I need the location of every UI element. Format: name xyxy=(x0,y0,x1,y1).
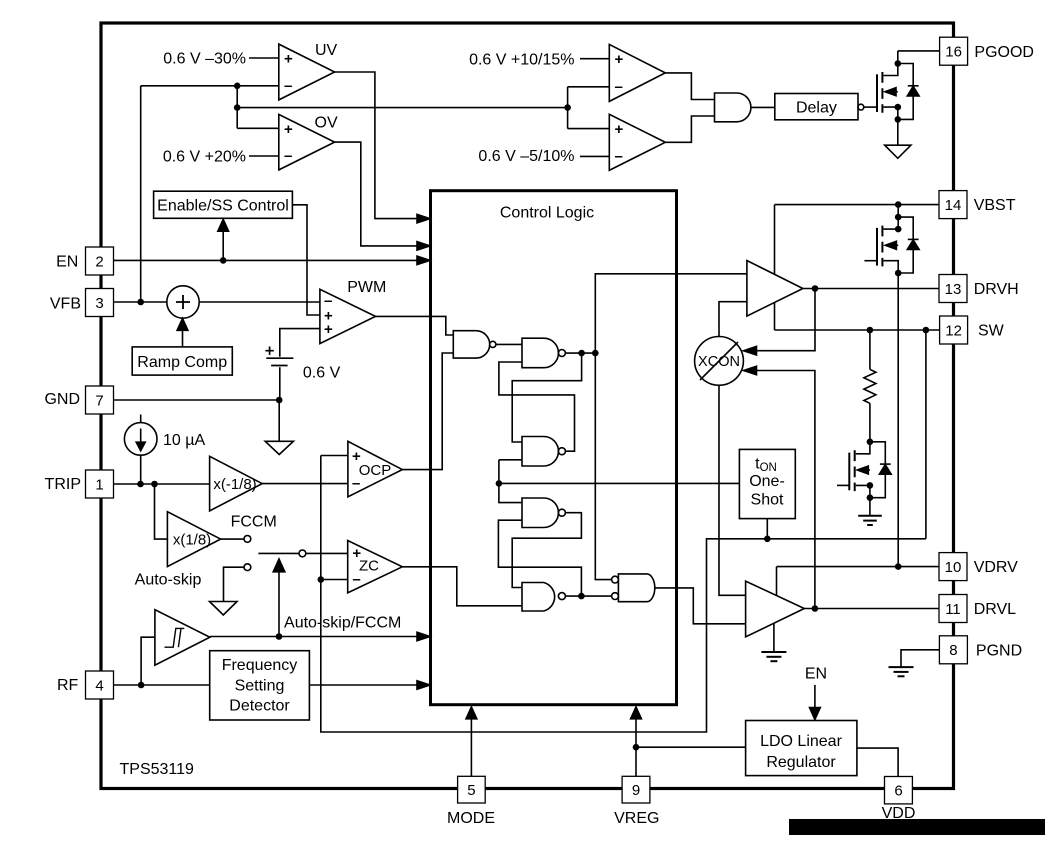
svg-text:Regulator: Regulator xyxy=(766,754,836,771)
svg-text:16: 16 xyxy=(945,44,962,61)
svg-text:5: 5 xyxy=(467,782,475,799)
NAND gate G2 xyxy=(522,338,565,368)
wire VBST line xyxy=(775,204,940,206)
svg-text:RF: RF xyxy=(57,677,79,694)
arrow Ramp Comp to summing xyxy=(182,330,184,347)
wire AND to Delay xyxy=(751,106,775,108)
svg-text:–: – xyxy=(284,148,292,165)
wire PG upper minus xyxy=(568,86,610,88)
arrow into CL EN xyxy=(417,256,430,265)
wire VFB line xyxy=(113,301,166,303)
pin 14 VBST xyxy=(939,191,967,219)
svg-text:FCCM: FCCM xyxy=(231,514,277,531)
driver DRVL xyxy=(746,581,805,637)
wire TRIP to x(1/8) xyxy=(155,484,168,539)
svg-text:1: 1 xyxy=(95,476,103,493)
svg-text:LDO Linear: LDO Linear xyxy=(760,733,842,750)
svg-text:14: 14 xyxy=(945,197,962,214)
wire GND line xyxy=(113,399,279,401)
junction dot SW1 xyxy=(867,327,874,334)
pin 6 VDD xyxy=(885,777,913,804)
wire SW line xyxy=(775,329,941,331)
wire UV minus net xyxy=(141,85,279,87)
wire ZC minus stub xyxy=(321,579,348,581)
switch contact Auto-skip xyxy=(244,564,251,571)
comparator UV xyxy=(279,44,335,100)
amplifier x(-1/8) xyxy=(210,456,263,511)
ground below DRVL driver xyxy=(761,652,786,661)
junction dot TRIP1 xyxy=(137,481,144,488)
junction dot VFB xyxy=(137,299,144,306)
arrow into CL autoskip xyxy=(417,632,430,641)
junction dot RF xyxy=(138,682,145,689)
wire PWM output to NAND1 xyxy=(376,316,454,335)
svg-text:VDRV: VDRV xyxy=(974,559,1018,576)
junction dot VREG xyxy=(633,744,640,751)
comparator PG lower xyxy=(609,114,665,170)
wire ZC output xyxy=(402,567,522,606)
ground PGND xyxy=(889,667,914,676)
pin 1 TRIP xyxy=(86,470,114,498)
svg-text:0.6 V +10/15%: 0.6 V +10/15% xyxy=(469,52,574,69)
svg-text:VREG: VREG xyxy=(614,810,659,827)
svg-text:Control Logic: Control Logic xyxy=(500,205,594,222)
pin 12 SW xyxy=(940,316,968,344)
wire 0.6V+20% stub xyxy=(249,155,279,157)
svg-text:–: – xyxy=(352,475,360,492)
junction dot A1 xyxy=(234,83,241,90)
schmitt trigger RF xyxy=(155,610,210,666)
wire resistor to Q2 xyxy=(869,403,871,442)
svg-text:EN: EN xyxy=(805,665,827,682)
svg-text:+: + xyxy=(284,121,293,138)
junction dot Q1 xyxy=(578,350,585,357)
svg-text:TPS53119: TPS53119 xyxy=(120,761,195,778)
junction dot A3 xyxy=(564,104,571,111)
pin 5 MODE xyxy=(458,776,486,803)
svg-text:VFB: VFB xyxy=(50,295,81,312)
black bar bottom right xyxy=(789,819,1045,835)
svg-text:XCON: XCON xyxy=(698,354,740,370)
pin 8 PGND xyxy=(939,636,967,664)
wire auto-skip/FCCM line xyxy=(210,636,418,638)
wire PG upper output xyxy=(665,73,714,100)
wire G5 feedback to G4 xyxy=(498,520,581,596)
transistor Q3 bootstrap MOSFET xyxy=(864,201,901,566)
wire EN line xyxy=(113,259,417,261)
wire G6 output to DRVL driver xyxy=(655,588,746,624)
svg-text:Detector: Detector xyxy=(229,698,290,715)
diode D3 body diode xyxy=(898,217,919,273)
wire VDRV into driver xyxy=(776,567,778,596)
arrow into CL OV xyxy=(417,242,430,251)
schmitt symbol xyxy=(165,628,185,647)
junction dot DRVH xyxy=(812,285,819,292)
junction dot tON rail xyxy=(496,480,503,487)
wire x(1/8) to FCCM contact xyxy=(221,538,244,540)
junction dot VDRV xyxy=(895,563,902,570)
svg-text:Enable/SS Control: Enable/SS Control xyxy=(157,197,289,214)
Delay box xyxy=(775,94,858,120)
svg-text:EN: EN xyxy=(56,254,78,271)
pin 16 PGOOD xyxy=(940,37,968,65)
svg-text:0.6 V –5/10%: 0.6 V –5/10% xyxy=(478,148,574,165)
svg-text:DRVH: DRVH xyxy=(974,281,1019,298)
Enable/SS Control box xyxy=(154,191,293,218)
inverter bubble Delay output xyxy=(858,104,864,110)
wire VFB riser xyxy=(140,86,142,302)
svg-text:+: + xyxy=(284,51,293,68)
wire OCP output to NAND1 xyxy=(402,353,453,470)
wire PG lower output xyxy=(665,116,714,142)
arrow MODE into CL xyxy=(470,718,472,776)
svg-text:0.6 V +20%: 0.6 V +20% xyxy=(163,149,246,166)
junction dot ZCminus xyxy=(318,576,325,583)
wire Q to G3 input xyxy=(512,353,581,442)
svg-text:VBST: VBST xyxy=(974,197,1016,214)
wire G1 out to G2 xyxy=(496,343,522,345)
wire OV plus input xyxy=(237,127,279,129)
wire tON rail vertical xyxy=(499,460,522,503)
comparator OV xyxy=(279,114,335,169)
wire Enable/SS to PWM plus xyxy=(292,205,320,315)
svg-text:Auto-skip: Auto-skip xyxy=(135,572,202,589)
svg-text:–: – xyxy=(615,148,623,165)
resistor R1 xyxy=(864,369,876,403)
junction dot autoskip xyxy=(276,633,283,640)
svg-text:MODE: MODE xyxy=(447,810,495,827)
comparator ZC xyxy=(348,541,403,593)
wire SW into driver xyxy=(774,303,776,330)
svg-text:ZC: ZC xyxy=(359,558,379,575)
arrow auto-skip select xyxy=(278,572,280,637)
junction dot Q2 xyxy=(592,350,599,357)
NAND gate G1 xyxy=(453,331,496,358)
wire VFB to PG comparators xyxy=(237,107,567,109)
wire VDRV line xyxy=(777,566,940,568)
wire G2 output rail xyxy=(565,352,595,354)
comparator OCP xyxy=(348,441,402,497)
svg-text:OV: OV xyxy=(315,114,338,131)
junction dot tON out xyxy=(764,536,771,543)
arrow EN into LDO xyxy=(814,685,816,708)
wire PGND to ground xyxy=(901,650,939,667)
wire SW to resistor xyxy=(869,330,871,369)
svg-text:–: – xyxy=(284,78,292,95)
wire DRVL output xyxy=(804,608,939,610)
node PG tie xyxy=(567,87,569,129)
arrow VREG into CL xyxy=(635,718,637,776)
svg-text:x(1/8): x(1/8) xyxy=(173,532,211,549)
svg-text:12: 12 xyxy=(945,322,962,339)
arrow into CL detector xyxy=(417,681,430,690)
svg-text:–: – xyxy=(615,78,623,95)
LDO Linear Regulator box xyxy=(746,721,857,776)
wire SW sense down xyxy=(925,330,927,539)
svg-text:8: 8 xyxy=(949,642,957,659)
wire Q down to gate G6 xyxy=(595,353,611,579)
wire VREG to LDO xyxy=(636,746,746,748)
battery 0.6V xyxy=(265,329,320,400)
svg-text:PGOOD: PGOOD xyxy=(974,44,1034,61)
comparator PG upper xyxy=(609,44,665,101)
svg-text:10: 10 xyxy=(945,559,962,576)
wire detector output xyxy=(309,684,417,686)
switch contact common xyxy=(299,550,306,557)
diode D2 body diode xyxy=(870,442,891,498)
svg-text:+: + xyxy=(352,545,361,562)
ground below battery xyxy=(265,441,293,454)
wire XCON bottom to DRVL driver xyxy=(719,385,746,595)
pin 7 GND xyxy=(86,386,114,414)
wire RF riser to schmitt xyxy=(141,637,155,685)
svg-text:Shot: Shot xyxy=(751,491,784,508)
wire PG lower plus xyxy=(568,128,610,130)
wire Q up to DRVH driver xyxy=(595,274,747,353)
wire 0.6V+10/15% stub xyxy=(580,58,609,60)
ground below Q2 xyxy=(858,516,882,525)
svg-text:GND: GND xyxy=(44,391,80,408)
Frequency Setting Detector box xyxy=(210,651,310,720)
arrow into XCON 2 xyxy=(744,366,757,375)
svg-text:Frequency: Frequency xyxy=(222,657,298,674)
driver DRVH xyxy=(747,261,803,317)
svg-text:9: 9 xyxy=(632,782,640,799)
XCON circle xyxy=(695,337,744,386)
svg-text:–: – xyxy=(352,571,360,588)
svg-text:0.6 V –30%: 0.6 V –30% xyxy=(163,51,246,68)
ground below auto-skip xyxy=(210,602,238,616)
NAND gate G3 xyxy=(522,437,565,467)
svg-text:Setting: Setting xyxy=(235,678,285,695)
pin 2 EN xyxy=(86,247,114,275)
svg-text:10 µA: 10 µA xyxy=(163,432,205,449)
wire DRVH to XCON xyxy=(754,289,815,351)
pin 10 VDRV xyxy=(939,553,967,581)
pin 3 VFB xyxy=(86,289,114,317)
tON One-Shot box xyxy=(739,449,795,518)
svg-text:Delay: Delay xyxy=(796,99,837,116)
svg-text:+: + xyxy=(324,321,333,338)
junction dot G5 out xyxy=(578,593,585,600)
AND gate G6 inverted inputs xyxy=(612,574,655,602)
pin 13 DRVH xyxy=(939,275,967,303)
junction dot DRVL xyxy=(812,605,819,612)
wire x(-1/8) to OCP minus xyxy=(262,483,348,485)
svg-text:Auto-skip/FCCM: Auto-skip/FCCM xyxy=(284,615,401,632)
wire TRIP sense rail xyxy=(321,456,926,733)
junction dot A2 xyxy=(234,104,241,111)
svg-text:PWM: PWM xyxy=(347,279,386,296)
wire common to ZC plus xyxy=(306,552,348,554)
svg-text:0.6 V: 0.6 V xyxy=(303,364,341,381)
svg-text:OCP: OCP xyxy=(359,462,392,479)
wire 0.6V-30% stub xyxy=(249,57,279,59)
svg-text:6: 6 xyxy=(894,783,902,800)
wire Q1 drain to pin16 xyxy=(898,50,940,52)
junction dot EN xyxy=(220,257,227,264)
wire LDO output to VDD xyxy=(857,748,898,776)
wire G5 out to G6 xyxy=(565,595,611,597)
transistor Q1 PGOOD open-drain MOSFET xyxy=(877,51,901,145)
wire G4 out to G5 input xyxy=(512,513,581,588)
NAND gate G4 xyxy=(522,498,565,528)
junction dot SW2 xyxy=(923,327,930,334)
svg-text:UV: UV xyxy=(315,42,338,59)
transistor Q2 SW sense MOSFET xyxy=(837,439,873,516)
svg-text:tON: tON xyxy=(755,455,777,474)
comparator PWM xyxy=(320,289,376,343)
wire G3 lower input xyxy=(499,459,522,461)
AND gate PG xyxy=(715,93,751,122)
svg-text:SW: SW xyxy=(978,323,1005,340)
svg-text:Ramp Comp: Ramp Comp xyxy=(137,354,227,371)
junction dot TRIP2 xyxy=(151,481,158,488)
Ramp Comp box xyxy=(132,347,232,375)
wire Delay to gate xyxy=(864,106,877,108)
switch contact FCCM xyxy=(244,536,251,543)
wire VBST into driver xyxy=(774,205,776,275)
pin 4 RF xyxy=(86,671,114,699)
diode D1 body diode xyxy=(898,64,919,120)
junction dot GND xyxy=(276,397,283,404)
svg-text:3: 3 xyxy=(95,295,103,312)
wire auto-skip contact to ground xyxy=(224,567,244,601)
wire DRVL to XCON xyxy=(754,371,815,609)
wire TRIP line xyxy=(113,483,209,485)
ground below Q1 xyxy=(885,145,911,158)
arrow EN to Enable/SS xyxy=(222,231,224,260)
svg-text:2: 2 xyxy=(95,253,103,270)
switch pole blade xyxy=(258,552,299,554)
svg-text:+: + xyxy=(352,448,361,465)
svg-text:7: 7 xyxy=(95,392,103,409)
wire OCP plus sense xyxy=(321,455,348,457)
node UV/OV tie xyxy=(236,86,238,129)
wire tON line xyxy=(499,482,740,484)
svg-text:+: + xyxy=(615,121,624,138)
svg-text:x(-1/8): x(-1/8) xyxy=(213,476,256,493)
chip outline border xyxy=(101,23,954,789)
svg-text:+: + xyxy=(615,51,624,68)
current source 10uA xyxy=(124,415,157,485)
svg-text:DRVL: DRVL xyxy=(974,601,1016,618)
svg-text:4: 4 xyxy=(95,677,103,694)
arrow into CL UV xyxy=(417,214,430,223)
svg-text:11: 11 xyxy=(945,601,961,618)
pin 9 VREG xyxy=(622,776,650,803)
NAND gate G5 xyxy=(522,583,565,612)
svg-text:One-: One- xyxy=(749,473,785,490)
XCON slash xyxy=(700,342,738,380)
wire G3 feedback to G2 xyxy=(499,362,575,451)
wire UV output xyxy=(335,72,418,219)
wire 0.6V-5/10% stub xyxy=(580,155,609,157)
Control Logic box xyxy=(431,191,677,705)
pin 11 DRVL xyxy=(939,595,967,623)
wire OV output xyxy=(335,142,418,246)
wire summing to PWM minus xyxy=(199,301,320,303)
amplifier x(1/8) xyxy=(167,512,220,567)
arrow into XCON 1 xyxy=(744,346,757,355)
wire DRVH output xyxy=(803,288,940,290)
wire GND to ground xyxy=(278,400,280,441)
svg-text:13: 13 xyxy=(945,281,962,298)
svg-text:PGND: PGND xyxy=(976,642,1022,659)
wire tON output xyxy=(766,519,768,539)
svg-text:TRIP: TRIP xyxy=(45,476,81,493)
wire DRVL driver ground stub xyxy=(773,623,775,652)
wire RF line xyxy=(113,684,209,686)
wire XCON top stub xyxy=(719,302,747,337)
summing node circle xyxy=(167,286,199,318)
